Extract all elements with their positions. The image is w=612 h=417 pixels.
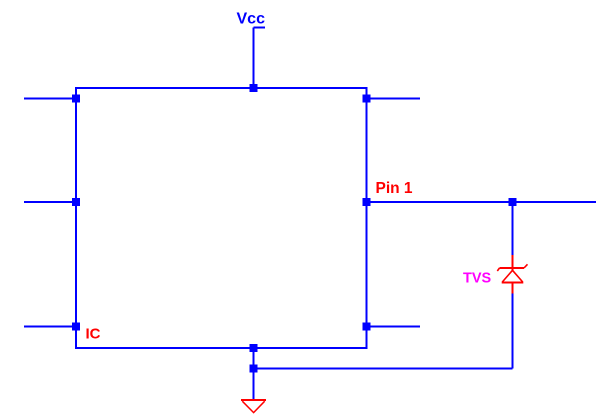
wire TVS branch lower xyxy=(512,293,514,369)
ground symbol xyxy=(241,400,266,413)
svg-text:Pin 1: Pin 1 xyxy=(376,180,413,197)
wire left pin row2 xyxy=(24,201,76,203)
junction left pin row3 xyxy=(72,323,80,331)
junction left pin row2 xyxy=(72,198,80,206)
svg-text:TVS: TVS xyxy=(463,271,492,287)
ic U1 body xyxy=(76,88,367,348)
wire Vcc vertical xyxy=(253,28,255,89)
junction left pin row1 xyxy=(72,95,80,103)
diode D1 TVS triangle xyxy=(502,270,524,282)
wire left pin row1 xyxy=(24,98,76,100)
wire gnd down to ground xyxy=(253,369,255,401)
junction Vcc pin xyxy=(250,84,258,92)
diode D1 TVS left wing xyxy=(497,268,499,271)
wire Pin 1 net xyxy=(367,201,597,203)
junction right bottom pin xyxy=(363,323,371,331)
wire right bottom pin xyxy=(367,326,421,328)
wire left pin row3 xyxy=(24,326,76,328)
svg-text:Vcc: Vcc xyxy=(237,11,266,28)
diode D1 TVS top stub xyxy=(512,255,514,271)
wire right top pin xyxy=(367,98,421,100)
wire gnd pin vertical xyxy=(253,348,255,369)
wire gnd horizontal to TVS xyxy=(254,368,513,370)
diode D1 TVS cathode bar xyxy=(500,267,525,269)
wire TVS branch upper xyxy=(512,202,514,255)
junction Pin 1 xyxy=(363,198,371,206)
diode D1 TVS right wing xyxy=(524,264,528,268)
diode D1 TVS bottom stub xyxy=(512,283,514,294)
junction right top pin xyxy=(363,95,371,103)
junction gnd pin xyxy=(250,344,258,352)
junction gnd net xyxy=(250,365,258,373)
junction TVS tap xyxy=(509,198,517,206)
power Vcc stub xyxy=(254,27,266,29)
svg-text:IC: IC xyxy=(86,326,101,343)
